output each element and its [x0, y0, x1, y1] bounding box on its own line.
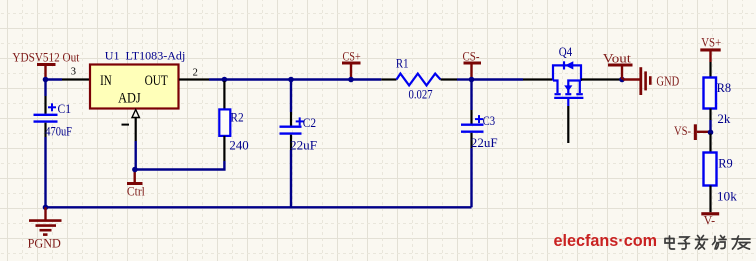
svg-text:C1: C1	[58, 102, 72, 116]
svg-text:IN: IN	[100, 73, 112, 89]
resistor R9	[704, 134, 717, 213]
pin 1 of U1 (ADJ) with arrow	[122, 110, 140, 142]
svg-text:ADJ: ADJ	[118, 91, 141, 107]
node junction CS+	[348, 77, 354, 83]
svg-text:VS+: VS+	[701, 36, 721, 50]
svg-text:U1 LT1083-Adj: U1 LT1083-Adj	[105, 51, 186, 63]
capacitor C2	[280, 80, 304, 208]
svg-text:elecfans·com: elecfans·com	[554, 232, 658, 250]
wire Ctrl node to R2 bottom	[135, 161, 225, 170]
node junction CS-	[469, 77, 475, 83]
svg-text:VS-: VS-	[674, 124, 691, 138]
svg-text:YDSV512 Out: YDSV512 Out	[12, 51, 79, 65]
svg-text:470uF: 470uF	[45, 124, 72, 138]
capacitor C1	[34, 96, 58, 207]
svg-text:240: 240	[229, 139, 248, 153]
node junction VS-	[708, 130, 714, 136]
bottom rail wire	[44, 206, 471, 208]
wire ADJ pin to Ctrl node	[134, 141, 136, 170]
svg-text:R1: R1	[396, 57, 409, 71]
resistor R2	[219, 81, 230, 161]
wire from YDSV512 Out node to IN pin	[46, 78, 63, 80]
port Ctrl	[127, 170, 145, 199]
port VS+	[700, 36, 721, 62]
node junction at YDSV512/C1	[43, 77, 49, 83]
svg-text:Vout: Vout	[603, 52, 632, 66]
resistor R8	[704, 62, 717, 132]
node junction at R2	[222, 77, 228, 83]
svg-text:2k: 2k	[717, 112, 731, 126]
port CS+	[342, 50, 361, 80]
svg-text:V-: V-	[704, 214, 716, 228]
svg-text:R8: R8	[717, 81, 732, 95]
svg-text:C2: C2	[303, 116, 316, 130]
Q4 gate pin (dangling)	[567, 106, 569, 143]
svg-text:3: 3	[71, 67, 76, 78]
pin 2 of U1 (OUT)	[179, 78, 209, 80]
svg-text:OUT: OUT	[145, 73, 168, 89]
node junction PGND	[43, 205, 49, 211]
wire CS+ to R1	[351, 78, 381, 80]
port VS-	[674, 124, 709, 140]
svg-text:2: 2	[193, 68, 198, 79]
wire OUT pin to C2	[209, 78, 291, 80]
svg-text:0.027: 0.027	[409, 87, 433, 101]
wire CS- to Q4 source	[472, 78, 524, 80]
wire R1 to CS-	[457, 78, 472, 80]
svg-text:22uF: 22uF	[471, 136, 498, 150]
svg-text:PGND: PGND	[28, 237, 61, 251]
svg-text:22uF: 22uF	[290, 138, 317, 152]
watermark Chinese text 电子发烧友 (drawn strokes)	[665, 236, 750, 250]
ground GND (earth, rotated)	[623, 67, 679, 95]
wire C2 to CS+	[291, 78, 351, 80]
node junction at C2	[288, 77, 294, 83]
port YDSV512 Out	[12, 51, 79, 80]
svg-text:Q4: Q4	[559, 45, 573, 59]
transistor Q4 (P-MOSFET)	[553, 61, 583, 106]
port Vout	[603, 52, 633, 80]
Q4 drain pin to Vout node	[581, 78, 620, 80]
pin 3 of U1 (IN)	[62, 78, 90, 80]
capacitor C3	[461, 80, 484, 208]
node junction Vout	[619, 77, 625, 83]
svg-text:GND: GND	[656, 74, 679, 89]
svg-text:R2: R2	[230, 110, 243, 124]
Q4 source pin	[523, 78, 553, 80]
wire node to C1	[44, 80, 46, 97]
port CS-	[463, 50, 482, 80]
op-amp/regulator U1 LT1083-Adj body	[90, 65, 179, 109]
svg-text:C3: C3	[483, 114, 496, 128]
resistor R1 (zigzag)	[381, 74, 457, 86]
svg-text:10k: 10k	[717, 189, 738, 203]
node junction Ctrl	[132, 167, 138, 173]
svg-text:R9: R9	[718, 156, 733, 170]
ground PGND (earth)	[28, 207, 62, 250]
svg-text:Ctrl: Ctrl	[127, 184, 145, 198]
port V-	[701, 212, 719, 227]
